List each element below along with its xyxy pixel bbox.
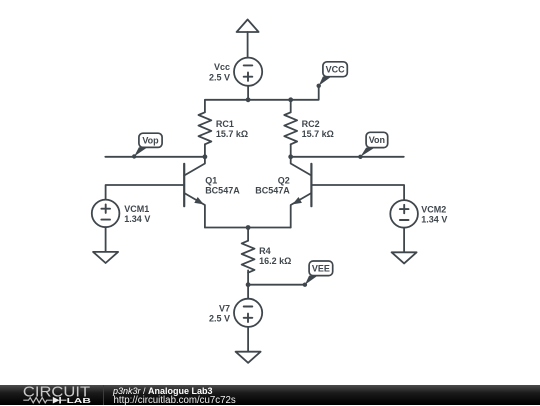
- wire Vop net: [105, 156, 205, 158]
- svg-text:Q2: Q2: [278, 175, 290, 185]
- flag Vop: [132, 133, 162, 158]
- voltage source VCM2 1.34 V: [390, 200, 418, 228]
- resistor RC2: [284, 100, 297, 157]
- svg-text:2.5 V: 2.5 V: [209, 72, 230, 82]
- svg-text:VEE: VEE: [312, 264, 330, 274]
- svg-text:VCC: VCC: [326, 65, 346, 75]
- svg-text:Vop: Vop: [142, 136, 159, 146]
- wire common emitter rail: [205, 227, 291, 229]
- svg-text:Von: Von: [369, 135, 385, 145]
- junction node: RC2 top: [288, 97, 293, 102]
- svg-text:2.5 V: 2.5 V: [209, 313, 230, 323]
- svg-text:R4: R4: [259, 246, 271, 256]
- wire Vcc bottom to top rail: [247, 86, 249, 100]
- power arrow (top VCC symbol): [237, 20, 259, 58]
- svg-text:LAB: LAB: [67, 396, 92, 405]
- wire top rail: [205, 86, 319, 112]
- ground (V7): [236, 352, 261, 363]
- wire VCM1 to ground: [105, 227, 107, 252]
- voltage source Vcc 2.5 V: [234, 58, 262, 86]
- junction node: R4/V7 (VEE): [246, 282, 251, 287]
- svg-text:VCM2: VCM2: [421, 204, 446, 214]
- ground (VCM1): [93, 252, 118, 263]
- wire VCM2 to Q2 base: [311, 185, 404, 200]
- flag Von: [358, 132, 388, 159]
- wire V7 to ground: [247, 327, 249, 352]
- transistor Q2: [291, 157, 312, 228]
- wire R4 to V7: [247, 285, 249, 299]
- svg-text:BC547A: BC547A: [205, 186, 240, 196]
- svg-text:RC2: RC2: [302, 119, 320, 129]
- flag VCC: [317, 62, 348, 88]
- wire emitter node to R4: [247, 228, 249, 241]
- svg-text:15.7 kΩ: 15.7 kΩ: [302, 129, 334, 139]
- wire Von net: [291, 156, 404, 158]
- svg-text:Vcc: Vcc: [214, 62, 230, 72]
- svg-text:RC1: RC1: [216, 119, 234, 129]
- resistor RC1: [199, 112, 212, 157]
- wire VEE net: [248, 284, 305, 286]
- wire VCM2 to ground: [403, 228, 405, 253]
- wire VCM1 to Q1 base: [106, 185, 185, 200]
- svg-text:Q1: Q1: [205, 175, 217, 185]
- voltage source VCM1 1.34 V: [92, 200, 120, 228]
- svg-text:1.34 V: 1.34 V: [124, 214, 150, 224]
- flag VEE: [303, 261, 333, 287]
- resistor R4: [242, 241, 255, 285]
- voltage source V7 2.5 V: [234, 299, 262, 327]
- svg-text:16.2 kΩ: 16.2 kΩ: [259, 256, 291, 266]
- transistor Q1: [184, 157, 205, 228]
- junction node: emitters/R4: [246, 225, 251, 230]
- svg-text:BC547A: BC547A: [255, 186, 290, 196]
- svg-text:V7: V7: [219, 303, 230, 313]
- junction node: RC1/Q1 collector (Vop): [203, 154, 208, 159]
- svg-text:VCM1: VCM1: [124, 204, 149, 214]
- junction node: RC2/Q2 collector (Von): [288, 154, 293, 159]
- junction node: Vcc/top rail: [246, 97, 251, 102]
- svg-text:15.7 kΩ: 15.7 kΩ: [216, 129, 248, 139]
- ground (VCM2): [392, 252, 417, 263]
- CircuitLab logo: [0, 385, 104, 405]
- svg-text:1.34 V: 1.34 V: [421, 215, 447, 225]
